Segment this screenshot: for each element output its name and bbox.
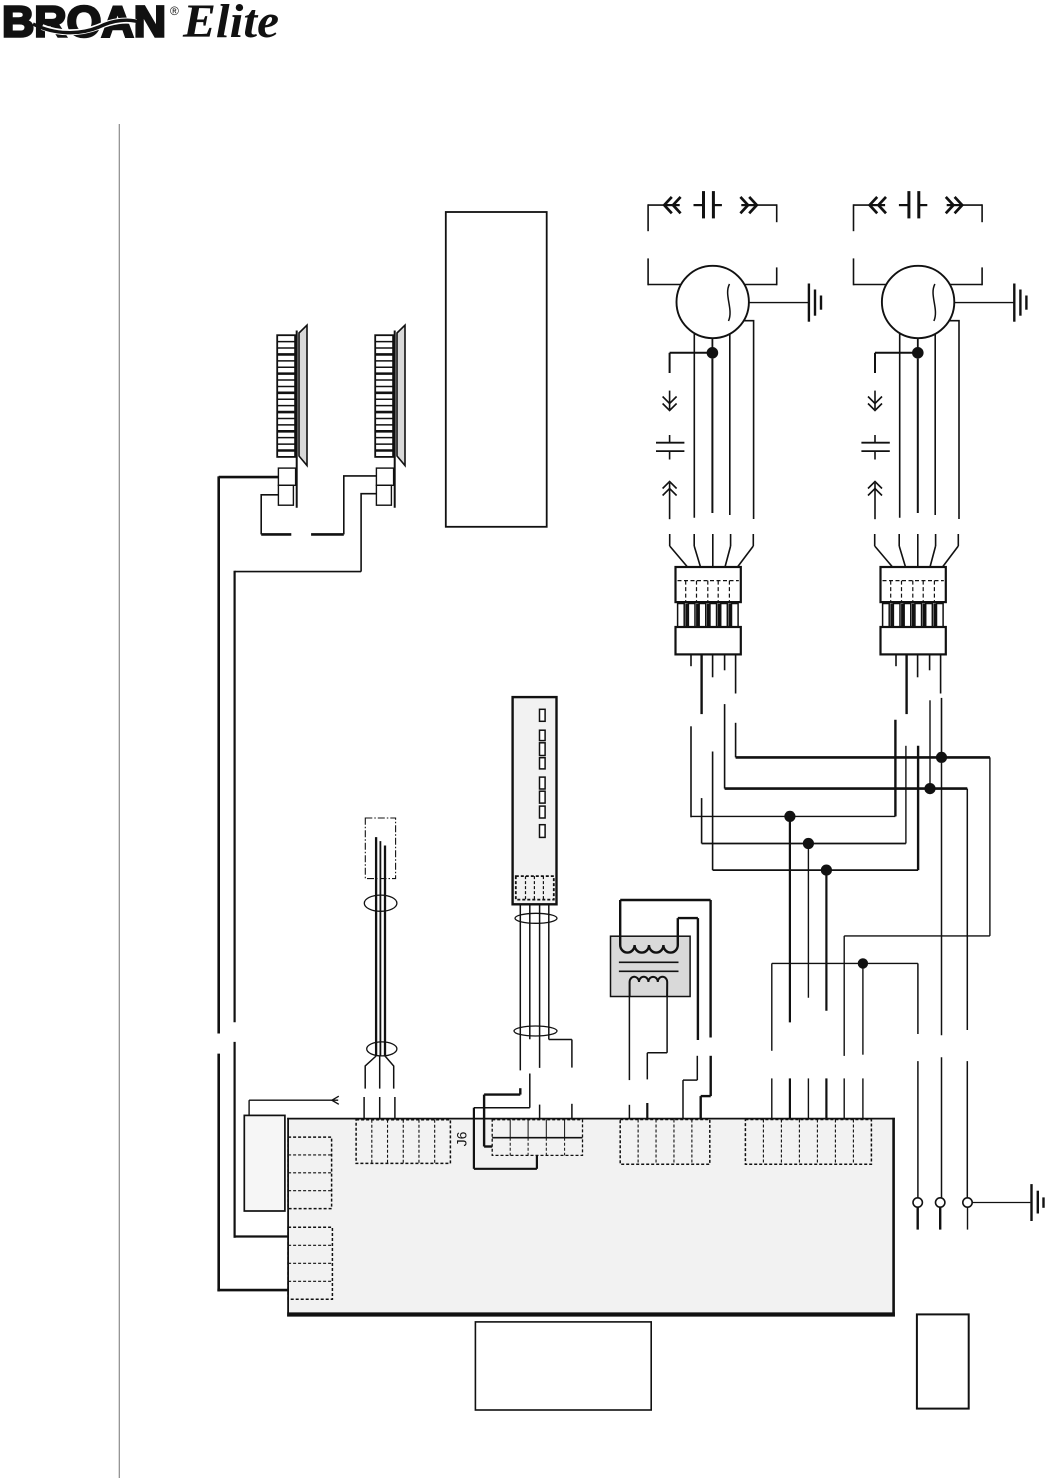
wire right lamp bus elbow into board	[234, 1235, 288, 1237]
lamp E2 (right lamp element)	[375, 325, 405, 508]
wire lamp E1 lower terminal elbow	[261, 495, 278, 535]
lamp E1 terminal block lower	[278, 485, 293, 505]
keypad wire 2 elbow into J6	[474, 1074, 537, 1169]
junction dot bus3 tap	[784, 811, 795, 822]
wire lamp E1 upper terminal to left bus	[219, 476, 279, 479]
wire left lamp bus vertical upper	[217, 476, 220, 1033]
transformer primary loop wires	[620, 900, 710, 1040]
junction dot bus2/M2	[924, 783, 935, 794]
relay box on board left	[244, 1115, 285, 1211]
hood enclosure outline	[446, 212, 547, 527]
wire bus1 return loop	[844, 757, 990, 963]
page margin rule	[118, 124, 120, 1478]
motor M2 (right blower motor)	[854, 191, 1027, 519]
lamp E1 terminal block upper	[278, 468, 295, 485]
ground symbol (chassis)	[972, 1184, 1043, 1221]
chassis terminal lugs	[913, 1198, 972, 1230]
label box bottom centre	[475, 1322, 651, 1410]
svg-text:®: ®	[170, 4, 179, 18]
junction dot bus5 tap	[821, 865, 832, 876]
wire right lamp bus vertical upper	[234, 571, 236, 1023]
lamp E1 (left lamp element)	[277, 325, 307, 508]
label J6	[454, 1131, 470, 1146]
transformer T1	[611, 900, 691, 997]
wires connector drop verticals	[691, 698, 942, 870]
keypad wire 3 lower stub	[539, 1105, 541, 1120]
lamp E2 terminal block upper	[376, 468, 393, 485]
bus line 4 (y844)	[702, 843, 906, 845]
label box bottom right	[917, 1314, 969, 1408]
sensor wires into board	[364, 1056, 395, 1120]
connector J4 (board top middle)	[620, 1120, 710, 1165]
wire broken link right segment	[311, 533, 344, 536]
wire link riser to lamp E2 upper terminal	[344, 476, 377, 535]
control board PCB	[287, 1118, 895, 1317]
wire right lamp bus vertical lower	[234, 1042, 236, 1238]
keypad switch assembly S1	[513, 697, 557, 904]
wire broken link left segment	[261, 533, 291, 536]
wires bus taps dropping to board (upper segments)	[772, 816, 863, 1056]
connector J2 (board left upper)	[288, 1137, 332, 1209]
wire lamp E2 lower terminal elbow	[361, 494, 376, 572]
sensor wires	[376, 837, 385, 1056]
keypad wire 1 elbow into J6	[484, 1088, 520, 1146]
transformer primary wires into board	[683, 1056, 711, 1120]
connector P2 (motor M2 plug)	[875, 534, 959, 714]
bus line 1 (y758)	[736, 756, 990, 759]
connector P1 (motor M1 plug)	[670, 534, 754, 714]
motor M1 (left blower motor)	[648, 191, 821, 519]
cable tie ellipse sensor lower	[367, 1042, 397, 1056]
junction dot bus4 tap	[803, 838, 814, 849]
bus line 2 (y789)	[725, 787, 968, 790]
bus line 3 (y816)	[691, 815, 895, 817]
connector J6 header grid	[492, 1120, 582, 1156]
cable tie ellipse keypad lower	[514, 1026, 557, 1036]
wires bus taps dropping to board (lower segments)	[772, 1078, 863, 1119]
transformer secondary wires into board	[629, 996, 667, 1120]
bus line 6 (y963)	[772, 962, 918, 964]
wire lamp E2 return horizontal	[235, 571, 362, 573]
keypad ribbon wires	[520, 904, 549, 1071]
connector J3 (board left lower)	[288, 1227, 332, 1299]
logo Broan Elite	[2, 0, 279, 48]
cable tie ellipse keypad upper	[515, 913, 557, 923]
connector J5 (board top right)	[745, 1120, 871, 1165]
keypad wire 4 jog	[549, 1040, 572, 1120]
bus line 5 (y870)	[713, 869, 919, 871]
wire left lamp bus elbow into board	[217, 1289, 287, 1292]
cable tie ellipse sensor upper	[364, 895, 397, 911]
signal arrow to relay box	[249, 1096, 339, 1115]
junction dot bus6 tap	[858, 958, 868, 968]
lamp E2 terminal block lower	[376, 485, 391, 505]
sensor module (dash-dot outline)	[365, 818, 395, 879]
junction dot bus1/M2	[936, 752, 947, 763]
wires to chassis terminals	[918, 763, 967, 1198]
svg-text:Elite: Elite	[182, 0, 279, 48]
svg-text:J6: J6	[454, 1131, 470, 1146]
wire left lamp bus vertical lower	[217, 1054, 220, 1292]
connector J1 (board top left)	[356, 1120, 450, 1164]
